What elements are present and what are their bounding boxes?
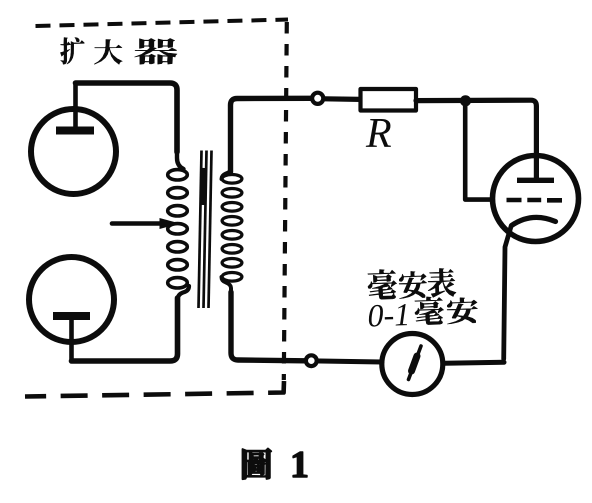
wire TP1 to resistor R <box>325 96 360 102</box>
wire V3 cathode to meter <box>445 362 504 363</box>
transformer T1 primary winding <box>168 150 189 300</box>
wire V1 plate to primary top <box>76 83 178 152</box>
V1 plate bar <box>56 127 94 135</box>
grid lead arrow into primary <box>112 218 180 229</box>
V3 plate bar <box>517 178 554 183</box>
V3 cathode arc <box>512 217 556 225</box>
resistor R1 <box>361 89 417 111</box>
meter MA milliammeter <box>382 334 443 395</box>
V2 plate bar <box>53 312 90 320</box>
terminal TP1 <box>312 93 323 104</box>
wire meter to terminal TP2 <box>305 361 383 362</box>
transformer T1 core <box>199 151 212 309</box>
label 扩大器 (amplifier) <box>60 37 176 64</box>
wire secondary top to terminal TP1 <box>231 98 311 172</box>
svg-text:0-1: 0-1 <box>367 296 411 333</box>
transformer T1 secondary winding <box>222 170 242 294</box>
terminal TP2 <box>306 355 317 366</box>
label 毫安表 0-1毫安 (milliammeter 0-1 mA) <box>366 266 478 333</box>
V3 grid dashes <box>507 198 563 203</box>
amplifier enclosure dashed box <box>25 20 288 397</box>
svg-text:1: 1 <box>290 444 309 486</box>
V3 cathode lead <box>504 227 511 360</box>
wire J1 to V3 grid <box>465 103 492 200</box>
V2 plate lead <box>69 319 74 359</box>
svg-text:R: R <box>365 111 392 157</box>
wire V2 to primary bottom <box>72 298 178 361</box>
V1 plate lead <box>73 84 78 127</box>
tube V2 <box>29 257 114 359</box>
wire resistor to junction J1 and V3 plate <box>416 100 536 178</box>
meter needle <box>409 346 422 380</box>
tube V1 <box>31 84 116 194</box>
caption 圖 1 <box>243 444 309 486</box>
tube V3 (detector) <box>493 156 579 360</box>
node J1 <box>460 95 471 106</box>
wire TP2 to secondary bottom <box>231 292 305 361</box>
